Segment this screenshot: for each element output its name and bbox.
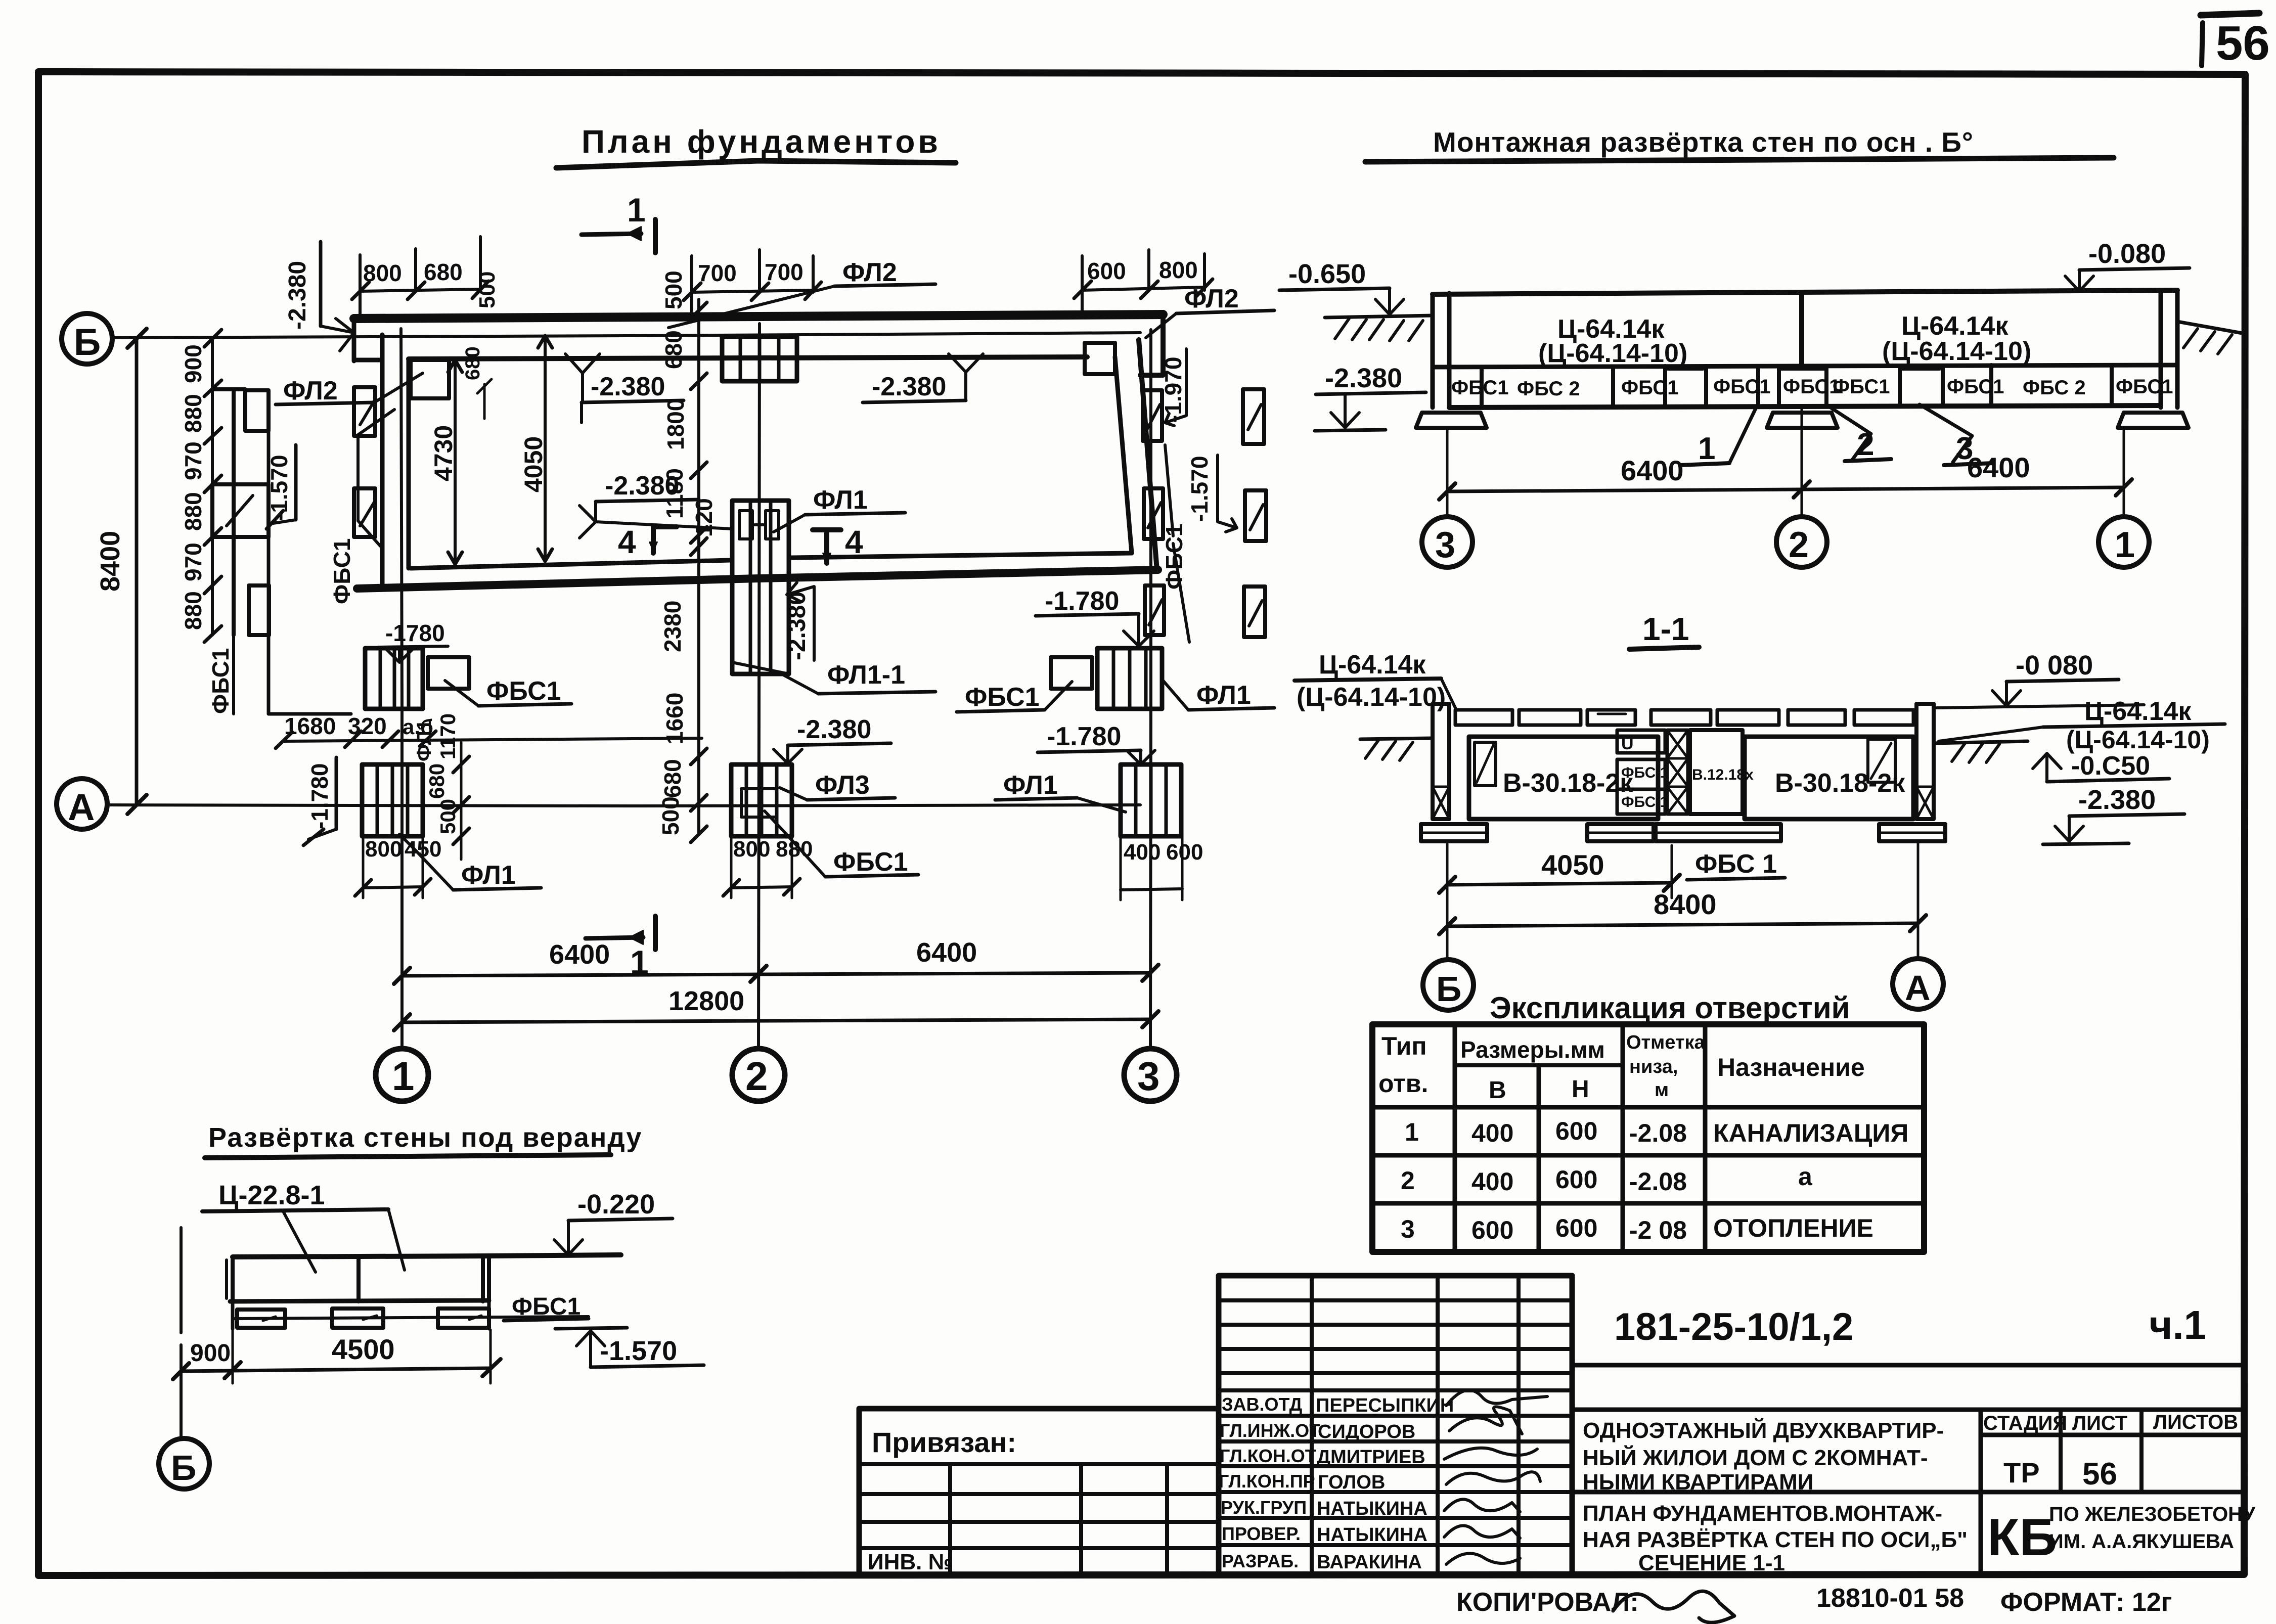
svg-text:1: 1	[627, 191, 646, 229]
pier bottom axis1	[362, 764, 423, 836]
svg-text:-1.780: -1.780	[306, 763, 333, 829]
svg-text:Развёртка стены под веранду: Развёртка стены под веранду	[208, 1122, 642, 1153]
svg-text:400: 400	[1124, 840, 1161, 865]
svg-text:2380: 2380	[659, 601, 686, 652]
svg-text:НАТЫКИНА: НАТЫКИНА	[1317, 1498, 1427, 1519]
svg-text:НЫЙ ЖИЛОИ ДОМ С 2КОМНАТ-: НЫЙ ЖИЛОИ ДОМ С 2КОМНАТ-	[1583, 1445, 1928, 1470]
organization cell with KB logo	[1987, 1503, 2256, 1567]
label FL1 (right of axis3 mid pier)	[1163, 681, 1274, 710]
svg-text:РУК.ГРУП: РУК.ГРУП	[1221, 1497, 1307, 1518]
dims 400 600 under axis3 pier	[1121, 836, 1203, 900]
svg-text:-0 080: -0 080	[2016, 650, 2093, 681]
small blocks outside left wall	[354, 387, 375, 537]
svg-text:600: 600	[1471, 1216, 1513, 1244]
svg-text:-2.380: -2.380	[591, 372, 665, 401]
section 4 marks	[618, 524, 863, 563]
inner dim 4050	[519, 336, 552, 561]
svg-text:В-30.18-2к: В-30.18-2к	[1775, 769, 1905, 798]
dims 800 880 under axis2 pier	[723, 834, 813, 898]
svg-text:3: 3	[1137, 1054, 1160, 1099]
svg-text:1660: 1660	[661, 693, 688, 744]
label FBS1 (bottom axis2)	[765, 811, 918, 877]
axis A horizontal	[57, 779, 1140, 829]
verandah elevation -0.220	[554, 1189, 673, 1255]
label FL1 (bottom axis1)	[399, 834, 541, 890]
svg-text:КБ: КБ	[1987, 1508, 2057, 1567]
section wall body	[1433, 704, 1934, 819]
svg-text:ФЛ1: ФЛ1	[813, 485, 868, 515]
svg-text:-1.570: -1.570	[600, 1336, 677, 1366]
right chain (axis2 side)	[657, 270, 717, 842]
svg-text:4050: 4050	[519, 436, 548, 492]
svg-text:Размеры.мм: Размеры.мм	[1460, 1036, 1605, 1063]
label FL2 right with leader	[1146, 284, 1274, 338]
verandah lower blocks	[233, 1300, 589, 1329]
privyazan box	[859, 1409, 1219, 1574]
label -1.780 rotated (left)	[303, 757, 336, 845]
svg-text:4500: 4500	[332, 1333, 395, 1365]
svg-text:-2.08: -2.08	[1629, 1167, 1687, 1196]
svg-text:ФЛ3: ФЛ3	[815, 771, 870, 800]
section lintel row	[1455, 710, 1913, 725]
svg-text:ПО ЖЕЛЕЗОБЕТОНУ: ПО ЖЕЛЕЗОБЕТОНУ	[2049, 1503, 2256, 1525]
label FBS1 rotated (right band)	[1161, 445, 1189, 642]
inner dim 4730	[429, 360, 462, 564]
svg-text:Б: Б	[74, 321, 101, 363]
svg-text:-2.08: -2.08	[1629, 1119, 1687, 1147]
label FL1 (bottom right)	[995, 771, 1126, 812]
table heading	[1490, 991, 1850, 1025]
svg-text:ФЛ1: ФЛ1	[1003, 771, 1058, 800]
svg-text:КОПИ'РОВАЛ:: КОПИ'РОВАЛ:	[1456, 1588, 1639, 1617]
svg-text:Б: Б	[1436, 969, 1461, 1009]
svg-text:ФБС1: ФБС1	[965, 683, 1040, 712]
axis1 bottom chain 1170/680/500	[425, 713, 469, 860]
svg-text:ФБС 2: ФБС 2	[1517, 378, 1580, 400]
label -1.970 rotated (right)	[1160, 349, 1186, 426]
svg-text:ФБС1: ФБС1	[207, 648, 234, 714]
svg-text:680: 680	[462, 346, 484, 380]
svg-text:U: U	[1621, 734, 1634, 753]
label FBS1 rotated (left of plan)	[329, 410, 394, 604]
svg-text:Назначение: Назначение	[1717, 1053, 1865, 1081]
dev dim 6400 6400	[1439, 408, 2132, 515]
svg-text:Отметка: Отметка	[1626, 1032, 1706, 1053]
top dims 700 700 (axis2)	[684, 250, 821, 320]
elevation -2.380 rotated top-left	[284, 242, 354, 351]
elevation -0.650 (dev left)	[1279, 259, 1404, 314]
plan outer wall top band	[354, 314, 1163, 588]
svg-text:НАТЫКИНА: НАТЫКИНА	[1317, 1524, 1427, 1546]
svg-text:-1.780: -1.780	[1045, 587, 1119, 616]
signature squiggles	[1444, 1390, 1547, 1564]
svg-text:-1.970: -1.970	[1160, 357, 1186, 423]
svg-text:ФЛ1: ФЛ1	[413, 719, 435, 761]
label FBS1 (mid-left)	[445, 676, 571, 706]
pier top-left corner (FL2)	[411, 360, 449, 398]
label FBS1 (mid-right)	[957, 682, 1072, 712]
svg-text:1680: 1680	[284, 713, 336, 739]
section circles B and A	[1423, 959, 1943, 1010]
svg-text:900: 900	[180, 344, 206, 383]
svg-text:Н: Н	[1572, 1076, 1589, 1103]
right side blocks on wall band	[1143, 390, 1164, 635]
pier bottom axis3	[1121, 764, 1181, 836]
svg-text:ФБС 1: ФБС 1	[1695, 849, 1777, 879]
section pads	[1421, 824, 1945, 841]
svg-text:СЕЧЕНИЕ 1-1: СЕЧЕНИЕ 1-1	[1638, 1551, 1785, 1575]
svg-text:НАЯ РАЗВЁРТКА СТЕН ПО ОСИ„Б": НАЯ РАЗВЁРТКА СТЕН ПО ОСИ„Б"	[1583, 1527, 1968, 1552]
svg-text:4730: 4730	[429, 425, 458, 481]
section block labels	[1503, 734, 1905, 810]
svg-text:ФЛ2: ФЛ2	[842, 258, 897, 287]
verandah elevation -1.570	[555, 1328, 704, 1367]
svg-text:-1.570: -1.570	[266, 455, 292, 521]
svg-text:(Ц-64.14-10): (Ц-64.14-10)	[1538, 339, 1687, 368]
svg-text:680: 680	[659, 759, 686, 798]
svg-text:1: 1	[1405, 1118, 1419, 1146]
label FL1 (center)	[774, 485, 905, 532]
svg-text:Ц-64.14к: Ц-64.14к	[2084, 697, 2192, 726]
svg-text:-2.380: -2.380	[784, 592, 811, 660]
svg-text:600: 600	[1555, 1117, 1597, 1145]
svg-text:700: 700	[765, 259, 804, 285]
svg-text:120: 120	[691, 498, 717, 537]
table row 2	[1401, 1162, 1813, 1196]
project description cell	[1583, 1417, 1944, 1495]
svg-text:800: 800	[733, 837, 770, 862]
label FL1 rotated (axis1 pier)	[413, 719, 435, 761]
label FBS1 rotated (left band)	[207, 648, 234, 714]
svg-text:500: 500	[660, 270, 687, 309]
sheet title cell	[1583, 1501, 1968, 1575]
svg-text:-0.С50: -0.С50	[2071, 751, 2150, 781]
label -1.570 rotated (right)	[1186, 455, 1237, 532]
axis B horizontal	[62, 313, 1140, 364]
ground line + hatch left of development	[1325, 315, 1433, 341]
svg-text:800: 800	[365, 837, 402, 862]
svg-text:(Ц-64.14-10): (Ц-64.14-10)	[1882, 337, 2031, 366]
svg-text:600: 600	[1166, 840, 1203, 865]
svg-text:4: 4	[618, 524, 636, 560]
svg-text:ГЛ.КОН.ОТ: ГЛ.КОН.ОТ	[1220, 1446, 1316, 1466]
ground hatch right of development	[2177, 322, 2245, 354]
svg-text:Б: Б	[171, 1448, 196, 1487]
svg-text:ФБС1: ФБС1	[329, 538, 355, 604]
svg-text:Монтажная развёртка стен: Монтажная развёртка стен по осн . Б°	[1433, 126, 1974, 158]
section dim 4050	[1439, 845, 1680, 898]
label FL2 with leader (top middle)	[668, 258, 935, 328]
svg-text:В.12.18х: В.12.18х	[1692, 766, 1754, 783]
svg-text:500: 500	[657, 796, 684, 835]
svg-text:ПЕРЕСЫПКИН: ПЕРЕСЫПКИН	[1316, 1395, 1454, 1416]
pier mid-right (axis3)	[1051, 648, 1162, 709]
verandah title	[205, 1122, 642, 1158]
svg-text:-1780: -1780	[385, 620, 445, 646]
label -1.780 under mid-left pier	[378, 620, 448, 662]
svg-text:Ц-22.8-1: Ц-22.8-1	[218, 1180, 325, 1210]
svg-text:1-1: 1-1	[1642, 611, 1689, 647]
svg-text:ПЛАН ФУНДАМЕНТОВ.МОНТАЖ-: ПЛАН ФУНДАМЕНТОВ.МОНТАЖ-	[1583, 1501, 1942, 1526]
svg-text:м: м	[1655, 1079, 1669, 1101]
svg-text:Ц-64.14к: Ц-64.14к	[1319, 650, 1426, 680]
title: montazhnaya razvertka	[1365, 126, 2114, 162]
svg-text:ФЛ2: ФЛ2	[283, 376, 338, 405]
svg-text:880: 880	[180, 591, 206, 630]
bottom annotation: format	[2000, 1588, 2172, 1617]
sheet number 56	[2201, 13, 2270, 70]
axis 1 vertical	[376, 329, 428, 1101]
svg-text:а: а	[1798, 1162, 1813, 1191]
svg-text:КАНАЛИЗАЦИЯ: КАНАЛИЗАЦИЯ	[1713, 1119, 1908, 1147]
label -1.780 (bottom right)	[1038, 722, 1155, 764]
svg-text:600: 600	[1555, 1165, 1597, 1194]
svg-text:2: 2	[1401, 1166, 1415, 1195]
svg-text:2: 2	[745, 1054, 768, 1099]
svg-text:ТР: ТР	[2003, 1457, 2040, 1488]
svg-text:18810-01 58: 18810-01 58	[1816, 1584, 1964, 1613]
signature table role names	[1219, 1394, 1320, 1571]
svg-text:8400: 8400	[1654, 888, 1717, 920]
svg-text:В: В	[1489, 1077, 1506, 1104]
section dim 8400	[1439, 841, 1926, 961]
left dimension chain 900/880/970...	[180, 330, 221, 642]
elevation -2.380 rotated (center below)	[784, 582, 814, 660]
section elevation -2.380 right	[2043, 785, 2184, 844]
svg-text:ФБС 1: ФБС 1	[1621, 794, 1668, 810]
far right block column	[1243, 389, 1266, 637]
svg-text:900: 900	[190, 1340, 231, 1367]
svg-text:низа,: низа,	[1629, 1056, 1678, 1077]
svg-text:-2.380: -2.380	[2078, 785, 2156, 815]
bottom dim 12800	[394, 986, 1158, 1037]
label FL3	[780, 771, 895, 800]
section label Ts-64.14k right	[1939, 697, 2225, 754]
svg-text:План фундаментов: План фундаментов	[582, 123, 941, 160]
table header text	[1378, 1032, 1865, 1104]
dev axis circles 3 2 1	[1422, 517, 2149, 567]
verandah label Ts-22.8-1	[202, 1180, 405, 1272]
signature table grid	[1219, 1276, 1572, 1574]
svg-text:1180: 1180	[661, 468, 688, 519]
pier bottom axis2	[731, 764, 792, 836]
svg-text:ФЛ1: ФЛ1	[1196, 681, 1251, 710]
svg-text:ЛИСТ: ЛИСТ	[2072, 1412, 2127, 1434]
svg-text:СТАДИЯ: СТАДИЯ	[1983, 1412, 2067, 1434]
verandah label FBS1	[504, 1293, 589, 1321]
svg-text:2: 2	[1789, 525, 1809, 565]
inner dim 680 rotated small (top-left)	[462, 346, 492, 419]
svg-text:ДМИТРИЕВ: ДМИТРИЕВ	[1317, 1447, 1425, 1468]
svg-text:ИНВ. №: ИНВ. №	[868, 1550, 953, 1574]
svg-text:6400: 6400	[1967, 452, 2030, 483]
svg-text:ФБС1: ФБС1	[1451, 377, 1509, 399]
svg-text:680: 680	[425, 763, 449, 799]
svg-text:отв.: отв.	[1378, 1069, 1428, 1098]
svg-text:-0.650: -0.650	[1288, 259, 1366, 289]
svg-text:ФЛ1: ФЛ1	[461, 861, 516, 890]
dev panel labels	[1538, 311, 2031, 368]
svg-text:(Ц-64.14-10): (Ц-64.14-10)	[2066, 726, 2210, 754]
svg-text:320: 320	[348, 713, 387, 739]
label -1.780 (right mid)	[1036, 587, 1154, 646]
svg-text:СИДОРОВ: СИДОРОВ	[1318, 1421, 1415, 1442]
svg-text:-2 08: -2 08	[1629, 1216, 1687, 1244]
svg-text:1: 1	[2115, 525, 2135, 565]
svg-text:ЗАВ.ОТД: ЗАВ.ОТД	[1222, 1394, 1302, 1415]
svg-text:6400: 6400	[916, 937, 977, 968]
svg-text:600: 600	[1087, 258, 1126, 284]
svg-text:Тип: Тип	[1381, 1032, 1427, 1060]
section elevation -0.650 right	[2033, 751, 2169, 782]
svg-text:ФБС1: ФБС1	[512, 1293, 581, 1320]
label FL1-1	[732, 660, 935, 694]
svg-text:12800: 12800	[668, 986, 744, 1016]
opening marks 1 2 3 (dev)	[1680, 404, 1993, 466]
svg-text:-1.570: -1.570	[1186, 456, 1213, 522]
dim 8400 vertical left	[95, 329, 147, 814]
svg-text:8400: 8400	[95, 531, 125, 592]
svg-text:ГЛ.ИНЖ.ОТ: ГЛ.ИНЖ.ОТ	[1220, 1420, 1320, 1441]
svg-text:6400: 6400	[1621, 455, 1684, 486]
footing pads under development	[1416, 413, 2189, 428]
svg-text:1800: 1800	[662, 398, 689, 450]
svg-text:880: 880	[776, 837, 813, 862]
svg-text:ПРОВЕР.: ПРОВЕР.	[1222, 1523, 1301, 1544]
dim 1680 320 a.b	[276, 713, 702, 748]
svg-text:ГОЛОВ: ГОЛОВ	[1318, 1472, 1385, 1493]
svg-text:3: 3	[1435, 525, 1455, 565]
svg-text:400: 400	[1471, 1167, 1513, 1196]
plan middle wall band	[357, 553, 1158, 589]
svg-text:ВАРАКИНА: ВАРАКИНА	[1317, 1552, 1422, 1573]
svg-text:970: 970	[180, 543, 206, 581]
svg-text:-2.380: -2.380	[284, 261, 311, 330]
elevation -2.380 (center, above FL1)	[579, 471, 732, 538]
svg-text:ч.1: ч.1	[2149, 1302, 2206, 1347]
svg-text:ФБС1: ФБС1	[1783, 376, 1841, 398]
svg-text:4050: 4050	[1541, 849, 1604, 881]
project number cell	[1572, 1276, 2244, 1574]
svg-text:ФБС 1: ФБС 1	[1621, 764, 1668, 781]
svg-text:РАЗРАБ.: РАЗРАБ.	[1222, 1551, 1299, 1571]
svg-text:ИМ. А.А.ЯКУШЕВА: ИМ. А.А.ЯКУШЕВА	[2049, 1530, 2234, 1553]
axis 3 vertical	[1124, 330, 1177, 1101]
section label FBS1 below	[1687, 849, 1785, 880]
bottom annotation: 18810-01 58	[1816, 1584, 1964, 1613]
svg-text:880: 880	[180, 394, 206, 433]
svg-text:800: 800	[363, 260, 402, 286]
verandah axis line + circle B	[159, 1228, 209, 1489]
center pier group at axis2 (FL1 / FL1-1)	[732, 501, 789, 674]
svg-text:ОТОПЛЕНИЕ: ОТОПЛЕНИЕ	[1713, 1214, 1873, 1242]
title: plan fundamentov	[556, 123, 956, 168]
verandah wall panels	[227, 1255, 621, 1301]
svg-text:3: 3	[1401, 1215, 1415, 1243]
svg-text:ЛИСТОВ: ЛИСТОВ	[2153, 1411, 2238, 1433]
svg-text:ФОРМАТ: 12г: ФОРМАТ: 12г	[2000, 1588, 2172, 1617]
table row 1	[1405, 1117, 1908, 1147]
pier top-right corner	[1085, 343, 1115, 374]
svg-text:500: 500	[436, 799, 460, 834]
svg-text:-2.380: -2.380	[797, 715, 871, 744]
svg-text:4: 4	[845, 524, 863, 560]
svg-text:ФЛ2: ФЛ2	[1184, 284, 1239, 313]
svg-text:880: 880	[180, 492, 206, 531]
svg-text:1: 1	[392, 1054, 415, 1099]
label FL2 left with leader	[276, 373, 423, 405]
section elevation -0.080 right	[1937, 650, 2144, 708]
svg-text:970: 970	[180, 441, 206, 480]
svg-text:А: А	[68, 786, 95, 828]
svg-text:ФБС1: ФБС1	[1713, 376, 1771, 398]
svg-text:-2.380: -2.380	[1325, 363, 1402, 393]
section title 1-1	[1629, 611, 1699, 649]
svg-text:400: 400	[1471, 1119, 1513, 1147]
development block joints	[1451, 365, 2173, 407]
verandah wall band in plan (left)	[212, 389, 351, 714]
stage/sheet cells	[1572, 1410, 2244, 1574]
bottom dim 6400+6400	[394, 937, 1158, 991]
svg-text:56: 56	[2216, 16, 2270, 70]
svg-text:680: 680	[424, 259, 463, 285]
pier top axis2	[722, 337, 797, 381]
elevation -2.380 label (top, mid-left)	[565, 354, 684, 423]
section ground left	[1360, 738, 1433, 760]
svg-text:700: 700	[698, 260, 737, 286]
dims 800 450 under axis1 pier	[355, 834, 441, 898]
svg-text:181-25-10/1,2: 181-25-10/1,2	[1614, 1305, 1853, 1348]
svg-text:6400: 6400	[549, 939, 610, 970]
top dims 600 800 (right)	[1074, 250, 1213, 318]
svg-text:ФЛ1-1: ФЛ1-1	[827, 660, 905, 690]
svg-text:600: 600	[1555, 1214, 1597, 1242]
svg-text:ФБС 2: ФБС 2	[2023, 377, 2086, 399]
verandah dim 900 / 4500	[173, 1301, 501, 1383]
pier mid-left (axis1, below mid wall)	[365, 648, 469, 709]
elevation -2.380 label (top right of plan)	[863, 354, 983, 402]
section ground right	[1934, 741, 2028, 762]
table grid	[1372, 1024, 1924, 1252]
svg-text:ГЛ.КОН.ПР: ГЛ.КОН.ПР	[1219, 1471, 1315, 1492]
svg-text:680: 680	[660, 330, 687, 369]
axis 2 vertical	[732, 324, 785, 1101]
svg-text:1: 1	[1698, 431, 1715, 466]
section cut mark 1 (top)	[582, 191, 655, 253]
svg-text:-0.220: -0.220	[577, 1189, 655, 1220]
signature table person names	[1316, 1395, 1454, 1573]
bottom annotation: kopiroval	[1456, 1588, 1734, 1622]
svg-text:500: 500	[475, 272, 500, 308]
svg-text:(Ц-64.14-10): (Ц-64.14-10)	[1297, 683, 1446, 712]
svg-text:1170: 1170	[436, 713, 460, 759]
top dims 800 680 500 (left corner)	[352, 237, 500, 319]
svg-text:ФБС1: ФБС1	[833, 847, 908, 877]
label -1.570 (left band)	[266, 445, 296, 529]
svg-text:ФБС1: ФБС1	[1621, 377, 1679, 399]
svg-text:-2.380: -2.380	[872, 372, 946, 401]
svg-text:ФБС1: ФБС1	[486, 676, 561, 706]
svg-text:56: 56	[2082, 1457, 2117, 1492]
svg-text:Экспликация отверстий: Экспликация отверстий	[1490, 991, 1850, 1025]
svg-text:ФБС1: ФБС1	[1833, 376, 1890, 398]
table row 3	[1401, 1214, 1873, 1244]
svg-text:Привязан:: Привязан:	[872, 1426, 1016, 1458]
elevation -2.380 (dev left low)	[1315, 363, 1426, 431]
svg-text:800: 800	[1159, 257, 1198, 283]
elevation -2.380 (bottom, axis2)	[774, 715, 891, 763]
elevation -0.080 (dev right)	[2065, 239, 2190, 291]
